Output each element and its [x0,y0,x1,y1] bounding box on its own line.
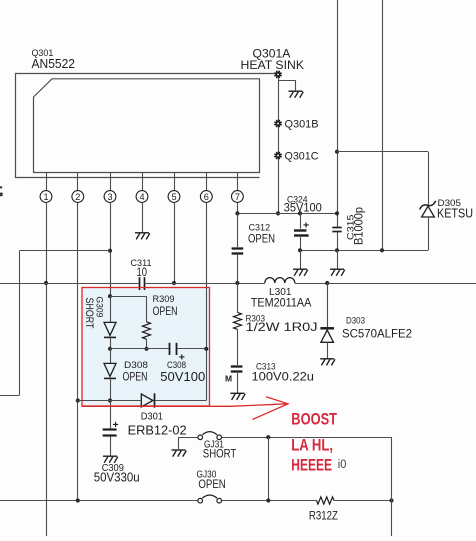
wire bottom bus right [334,500,392,502]
label R303 1/2W 1R0J [246,320,318,334]
node GJ31 wire junction [266,435,270,439]
wire pin7 down [237,202,239,213]
label C324 [287,194,308,205]
IC U Q301 AN5522 outer outline [15,74,275,178]
node pin2 bottom junction [76,498,80,502]
annotation LA HL, [291,436,333,454]
node C324 bottom [298,248,302,252]
node pin3-left-wire junction [108,249,112,253]
pin 5 of Q301 [168,173,180,203]
wire GJ31 to right [222,437,392,439]
label HEAT SINK [241,58,305,72]
annotation text mask [290,438,335,452]
label R303 [246,313,266,324]
node link bottom junction [266,498,270,502]
label Q301B [285,118,319,130]
svg-text:HEEEE: HEEEE [291,457,332,475]
wire pin4 down [142,202,144,232]
node box top junction [108,294,112,298]
capacitor C312 [232,213,244,283]
svg-text:B1000p: B1000p [352,207,366,245]
capacitor C311 [140,277,145,290]
node feeder A to D305 wire [335,150,339,154]
label C311 10 [137,267,148,279]
svg-text:R309: R309 [153,294,175,305]
wire C324 ground stub [300,250,302,269]
wire vertical feeder B [382,0,384,250]
node heatsink terminal Q301A [274,71,281,78]
svg-text:35V100: 35V100 [284,201,322,215]
diode D301 [141,393,154,407]
svg-text:50V330u: 50V330u [94,470,140,485]
label C313 [256,361,276,372]
label C308 50V100 [160,370,205,384]
svg-text:Q301B: Q301B [285,118,319,130]
svg-text:i0: i0 [338,459,347,471]
wire C315 ground stub [337,250,339,269]
wire pin1 down [46,202,48,536]
wire box mid [110,348,169,350]
svg-text:7: 7 [235,192,240,202]
highlight fill inside red box [82,288,210,407]
svg-text:SHORT: SHORT [83,298,95,329]
wire pin5 down [174,202,176,283]
label Q301A [253,47,291,61]
ground C315 [330,269,345,276]
diode D303 [320,283,334,359]
capacitor C313 [231,367,243,394]
svg-text:BOOST: BOOST [291,411,337,429]
annotation red box [82,288,210,407]
label M marking [225,374,232,384]
wire to D305 [337,152,429,205]
annotation HEEEE [291,457,332,475]
wire main bus mid [146,283,265,285]
ground C309 [103,456,118,463]
svg-text:D303: D303 [346,315,365,326]
wire main bus left [0,283,139,285]
wire pin3 down [110,202,112,296]
label C315 (rotated) [346,215,357,241]
node pin5-main junction [172,281,176,285]
svg-text:100V0.22u: 100V0.22u [252,369,315,383]
node terminal Q301B [274,120,281,127]
label G309 (rotated) [94,297,105,318]
label AN5522 [32,56,76,71]
svg-text:10: 10 [137,267,148,279]
node C315 bottom [335,248,339,252]
label C324 35V100 [284,201,322,215]
label clipped glyph left edge [0,186,3,196]
diode G309 [104,296,116,349]
svg-text:6: 6 [204,192,209,202]
label GJ30 OPEN [198,477,225,491]
node mid-right junction [204,347,208,351]
diode D305 [420,201,436,217]
svg-text:HEAT SINK: HEAT SINK [241,58,305,72]
capacitor C308 [170,343,207,364]
node box bottom-left junction [76,398,80,402]
capacitor C324 [294,213,309,250]
ground pin4 [135,233,150,240]
ground C324 [293,269,308,276]
svg-text:AN5522: AN5522 [32,56,76,71]
pin 7 of Q301 [232,173,244,203]
node mid-left junction [108,347,112,351]
label D308 OPEN [123,370,148,384]
wire right edge vertical [391,437,393,536]
ground C313 [230,393,245,400]
svg-text:5: 5 [171,192,176,202]
label D308 [124,360,148,371]
resistor R312Z [317,497,335,504]
label C309 [102,463,125,474]
wire heatsink to ground [278,80,296,91]
label i0 [338,459,347,471]
svg-text:SC570ALFE2: SC570ALFE2 [342,327,412,341]
node C324 top junction [298,211,302,215]
wire D305 bottom [300,217,429,251]
label Q301 [32,48,54,59]
node box bottom diode junction [108,398,112,402]
label D305 [438,198,462,209]
label D303 SC570ALFE2 [342,327,412,341]
wire link vertical [268,437,270,500]
svg-text:ERB12-02: ERB12-02 [128,423,187,438]
label R309 OPEN [153,306,178,318]
node main-D303 junction [325,281,329,285]
svg-text:1: 1 [43,192,48,202]
svg-text:KETSU: KETSU [437,206,473,220]
svg-text:TEM2011AA: TEM2011AA [251,296,311,310]
svg-text:OPEN: OPEN [248,232,275,246]
jumper GJ31 [198,432,222,440]
label GJ31 SHORT [203,447,237,461]
label Q301C [285,150,319,162]
wire pin2 down [77,202,79,500]
pin 1 of Q301 [40,173,52,203]
svg-text:1/2W 1R0J: 1/2W 1R0J [246,320,318,334]
capacitor C315 [332,228,341,251]
ground GJ31 [172,450,187,457]
wire box top to R309 [110,296,147,322]
svg-text:R312Z: R312Z [309,511,338,523]
label C309 50V330u [94,470,140,485]
label R312Z [309,511,338,523]
label L301 [269,287,292,298]
wire vertical feeder A [337,0,339,227]
label KETSU [437,206,473,220]
wire pin7 bus [237,213,337,215]
label D301 [141,412,164,423]
svg-text:2: 2 [75,192,80,202]
node pin7 corner [235,211,239,215]
node terminal Q301C [274,152,281,159]
label GJ31 [204,440,224,451]
svg-text:OPEN: OPEN [198,477,225,491]
label C312 OPEN [248,232,275,246]
label D303 [346,315,365,326]
node feeder B bottom [380,248,384,252]
svg-text:SHORT: SHORT [203,447,237,461]
resistor R309 [143,322,151,349]
wire left branch vertical [19,251,21,396]
node main-R303 junction [235,281,239,285]
wire cap ground bus [300,250,428,252]
svg-text:3: 3 [107,192,112,202]
node bottom-right junction [389,498,393,502]
svg-text:M: M [225,374,232,384]
wire left branch horizontal [19,250,110,252]
resistor R303 [234,283,242,365]
label C312 [249,223,271,234]
svg-text:LA HL,: LA HL, [291,436,333,454]
IC Q301 body [34,79,260,173]
wire GJ31 ground stub [179,437,198,450]
label GJ30 [197,469,217,480]
svg-text:Q301C: Q301C [285,150,319,162]
annotation red arrow [82,397,288,420]
label C315 B1000p (rotated) [352,207,366,245]
svg-text:4: 4 [139,192,144,202]
label G309 SHORT (rotated) [83,298,95,329]
svg-text:OPEN: OPEN [123,370,148,384]
jumper GJ30 [198,495,222,503]
diode D308 [104,349,116,401]
pin 2 of Q301 [72,173,84,203]
annotation BOOST [291,411,337,429]
node C315 top junction [335,211,339,215]
node heatsink line joins bus [276,211,280,215]
wire left branch exit [0,395,19,397]
capacitor C309 [103,401,119,457]
wire box bottom right [155,400,207,402]
wire heatsink vertical [278,77,280,213]
wire bottom bus mid [222,500,317,502]
ground D303 [320,359,335,366]
node mid-R309 junction [144,347,148,351]
inductor L301 [265,278,295,283]
wire bottom bus left [0,500,198,502]
label R309 [153,294,175,305]
wire box bottom left [78,400,141,402]
wire main bus right [295,283,476,285]
label C311 [131,258,152,269]
label C308 [167,360,186,371]
svg-text:OPEN: OPEN [153,306,178,318]
svg-text:D301: D301 [141,412,164,423]
pin 3 of Q301 [104,173,116,203]
label L301 TEM2011AA [251,296,311,310]
pin 4 of Q301 [136,173,148,203]
wire pin6 down [206,202,208,400]
label C313 100V0.22u [252,369,315,383]
ground heatsink [289,91,304,98]
label D301 ERB12-02 [128,423,187,438]
svg-text:50V100: 50V100 [160,370,205,384]
node pin1-main junction [44,281,48,285]
pin 6 of Q301 [200,173,212,203]
